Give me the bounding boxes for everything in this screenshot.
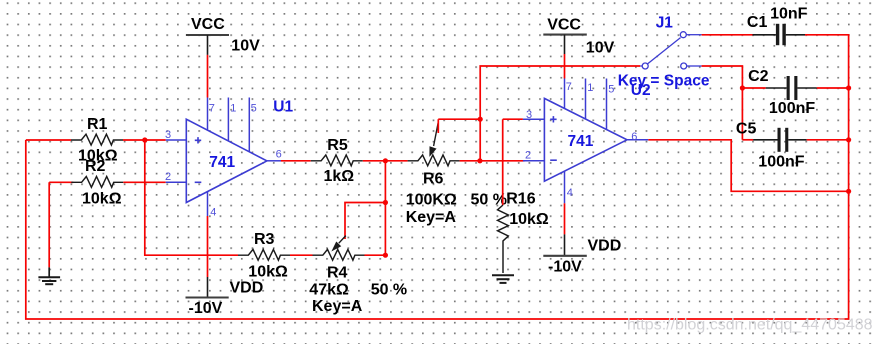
capacitor C1 bbox=[753, 24, 806, 45]
potentiometer R6 bbox=[408, 155, 460, 166]
wire node down and right to R3 bbox=[145, 140, 238, 255]
svg-text:Key=A: Key=A bbox=[312, 298, 363, 315]
svg-text:741: 741 bbox=[568, 133, 594, 150]
node junction R4 right lead bbox=[383, 253, 388, 258]
svg-text:3: 3 bbox=[165, 129, 171, 141]
wire R1 to U1 pin3 bbox=[123, 139, 166, 141]
wire R2 corner down to ground bbox=[48, 182, 50, 267]
wire switch bottom throw to C2/C5 bbox=[702, 66, 743, 140]
svg-text:VCC: VCC bbox=[547, 17, 581, 34]
svg-text:741: 741 bbox=[209, 154, 235, 171]
wire C5 right to right vertical bbox=[807, 139, 849, 141]
wire R3 to R4 bbox=[290, 254, 313, 256]
node junction R1/pin3/feedback bbox=[142, 137, 147, 142]
resistor R2 bbox=[71, 177, 123, 188]
svg-text:100KΩ: 100KΩ bbox=[406, 192, 457, 209]
svg-text:10kΩ: 10kΩ bbox=[82, 191, 122, 208]
svg-text:U1: U1 bbox=[273, 98, 293, 115]
svg-text:https://blog.csdn.net/qq_44705: https://blog.csdn.net/qq_44705488 bbox=[627, 317, 873, 334]
wire R2 to U1 pin2 bbox=[123, 181, 165, 183]
svg-text:VDD: VDD bbox=[230, 280, 264, 297]
svg-text:4: 4 bbox=[567, 187, 573, 199]
svg-text:10nF: 10nF bbox=[770, 5, 808, 22]
wire C5 left lead red bbox=[742, 139, 753, 141]
node junction wiper/line A bbox=[478, 117, 483, 122]
node junction R6 right/line A bbox=[477, 158, 482, 163]
svg-text:6: 6 bbox=[276, 148, 282, 160]
wire feedback loop: left vertical, bottom, right vertical bbox=[26, 35, 849, 319]
ground (bottom left) bbox=[38, 267, 60, 284]
svg-text:C1: C1 bbox=[747, 14, 768, 31]
svg-text:R5: R5 bbox=[327, 137, 348, 154]
svg-text:10V: 10V bbox=[586, 39, 615, 56]
svg-text:6: 6 bbox=[631, 131, 637, 143]
op-amp U1 bbox=[166, 98, 281, 217]
wire U2 pin3 and down to R16 bbox=[503, 119, 523, 205]
wire node down to R4 right lead bbox=[384, 161, 386, 255]
svg-text:3: 3 bbox=[526, 109, 532, 121]
wire line A up and right to switch common bbox=[480, 66, 640, 161]
svg-text:5: 5 bbox=[251, 103, 257, 115]
svg-text:Key = Space: Key = Space bbox=[618, 73, 710, 90]
svg-text:100nF: 100nF bbox=[769, 100, 815, 117]
svg-text:R4: R4 bbox=[327, 265, 348, 282]
capacitor C5 bbox=[753, 128, 807, 152]
power VDD U2 bbox=[543, 234, 587, 255]
op-amp U2 bbox=[523, 79, 648, 204]
svg-text:1kΩ: 1kΩ bbox=[324, 168, 355, 185]
ground (under R16) bbox=[492, 275, 514, 283]
capacitor C2 bbox=[766, 76, 817, 100]
svg-text:VDD: VDD bbox=[588, 237, 622, 254]
resistor R1 bbox=[71, 134, 123, 145]
svg-text:R6: R6 bbox=[423, 171, 444, 188]
wire C2 left junction bbox=[742, 87, 765, 89]
svg-text:C5: C5 bbox=[736, 121, 757, 138]
svg-text:5: 5 bbox=[608, 84, 614, 96]
svg-text:-10V: -10V bbox=[548, 259, 582, 276]
svg-text:R16: R16 bbox=[506, 191, 535, 208]
svg-text:C2: C2 bbox=[748, 68, 769, 85]
svg-text:R3: R3 bbox=[254, 231, 275, 248]
svg-text:R2: R2 bbox=[85, 158, 106, 175]
power VCC U1 bbox=[186, 35, 229, 55]
wire C2 right to right vertical bbox=[817, 87, 849, 89]
potentiometer R4 bbox=[313, 249, 365, 260]
resistor R5 bbox=[311, 155, 363, 166]
svg-text:VCC: VCC bbox=[191, 16, 225, 33]
wire R5 to R6 bbox=[363, 160, 408, 162]
wire U1 output to R5 bbox=[281, 160, 311, 162]
resistor R3 bbox=[238, 249, 290, 260]
svg-text:Key=A: Key=A bbox=[406, 209, 457, 226]
wire left vertical to R1 bbox=[26, 139, 71, 141]
svg-text:10V: 10V bbox=[231, 37, 260, 54]
svg-text:50 %: 50 % bbox=[371, 281, 407, 298]
resistor R16 bbox=[498, 205, 509, 273]
svg-text:4: 4 bbox=[210, 206, 216, 218]
wire R4 right to node bbox=[365, 254, 386, 256]
wire R6 wiper to line A bbox=[438, 119, 480, 133]
node junction R5/R6/vertical bbox=[383, 158, 388, 163]
node junction wiper branch bbox=[383, 200, 388, 205]
svg-text:47kΩ: 47kΩ bbox=[309, 281, 349, 298]
svg-text:2: 2 bbox=[525, 149, 531, 161]
svg-text:10kΩ: 10kΩ bbox=[248, 264, 288, 281]
svg-text:100nF: 100nF bbox=[758, 154, 804, 171]
wire wiper branch to R4 bbox=[345, 203, 385, 240]
svg-text:J1: J1 bbox=[656, 14, 674, 31]
svg-text:-10V: -10V bbox=[189, 300, 223, 317]
power VCC U2 bbox=[543, 35, 587, 54]
svg-text:2: 2 bbox=[165, 171, 171, 183]
wire VCC to U1 pin7 bbox=[207, 55, 209, 98]
power VDD U1 bbox=[186, 277, 229, 298]
wire switch top throw to C1 bbox=[702, 34, 753, 36]
svg-text:1: 1 bbox=[587, 82, 593, 94]
wire U1 pin4 to VDD bbox=[207, 216, 209, 277]
wire R6 to U2 pin2 bbox=[460, 160, 525, 162]
wire U2 pin4 to VDD bbox=[564, 203, 566, 234]
svg-text:10kΩ: 10kΩ bbox=[509, 211, 549, 228]
svg-text:7: 7 bbox=[209, 103, 215, 115]
switch J1 bbox=[640, 35, 701, 66]
wire U2 output loop to right vertical bbox=[648, 140, 848, 192]
wire VCC to U2 pin7 bbox=[564, 54, 566, 79]
svg-text:1: 1 bbox=[230, 103, 236, 115]
svg-text:7: 7 bbox=[566, 81, 572, 93]
svg-text:R1: R1 bbox=[87, 116, 108, 133]
wire ground corner to R2 bbox=[49, 181, 73, 183]
